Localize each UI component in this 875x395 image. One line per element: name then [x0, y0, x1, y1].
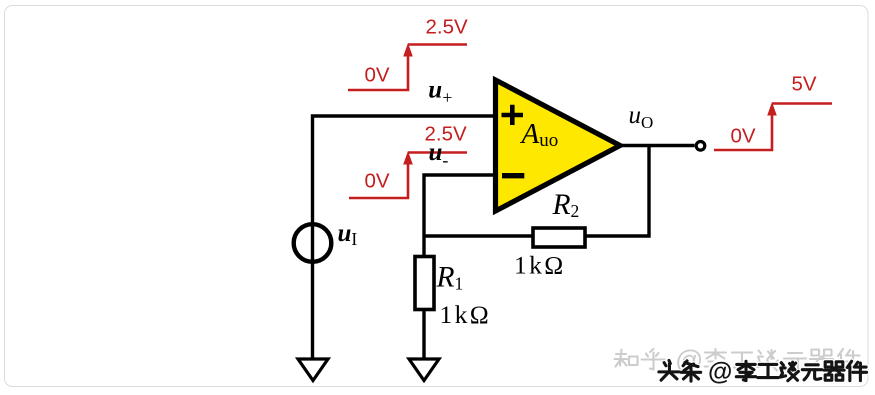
svg-text:@: @	[708, 358, 732, 386]
svg-text:2.5V: 2.5V	[426, 16, 468, 39]
svg-text:1kΩ: 1kΩ	[440, 300, 492, 329]
svg-text:1kΩ: 1kΩ	[514, 251, 566, 280]
svg-text:0V: 0V	[365, 170, 390, 193]
svg-text:0V: 0V	[365, 64, 390, 87]
svg-text:5V: 5V	[792, 73, 817, 96]
svg-text:0V: 0V	[731, 125, 756, 148]
